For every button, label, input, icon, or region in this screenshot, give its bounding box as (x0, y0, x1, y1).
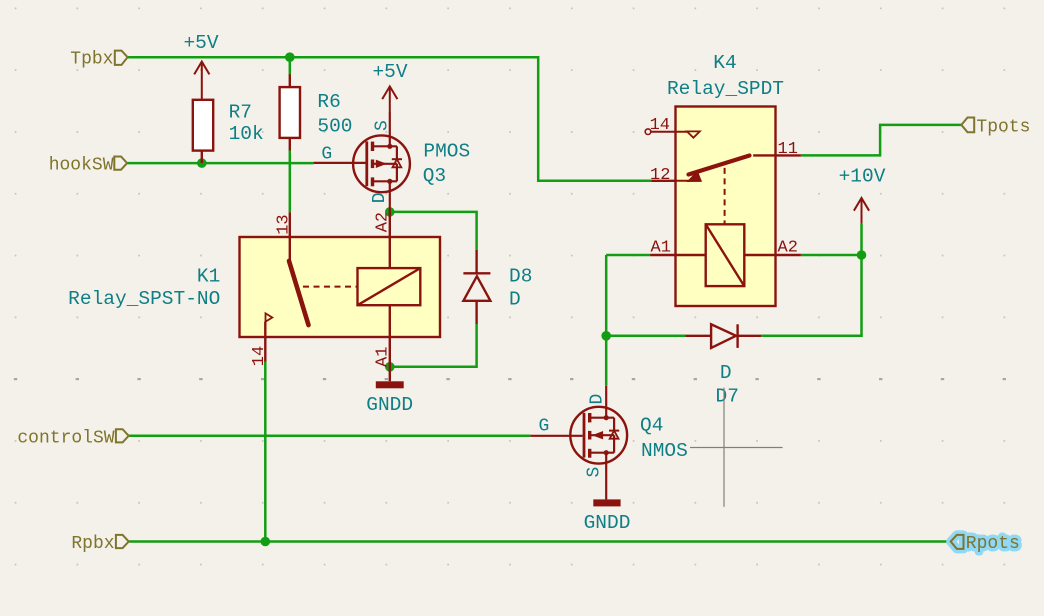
svg-text:Q3: Q3 (423, 165, 446, 187)
wire R6 top link (289, 57, 292, 75)
svg-text:D: D (720, 362, 732, 384)
wire R6 bottom to K1 pin13 (289, 150, 292, 212)
svg-text:A1: A1 (374, 347, 393, 367)
wire node down to Q4 drain (605, 255, 608, 386)
relay K4 Relay_SPDT (645, 107, 801, 307)
editor crosshair cursor (690, 388, 783, 507)
diode D8 (463, 250, 490, 324)
svg-text:A1: A1 (651, 239, 671, 258)
hierarchical port Tpbx (70, 50, 127, 70)
svg-text:G: G (539, 416, 550, 436)
wire node to D7 anode (606, 335, 685, 338)
wire K4 A1 to node (606, 254, 650, 257)
svg-text:hookSW: hookSW (49, 156, 114, 176)
svg-text:14: 14 (650, 116, 670, 135)
ground GNDD at Q4 (584, 499, 631, 534)
wire controlSW to Q4 gate (128, 435, 530, 438)
svg-text:500: 500 (317, 115, 352, 137)
svg-text:Relay_SPST-NO: Relay_SPST-NO (68, 288, 220, 310)
svg-text:+5V: +5V (372, 61, 407, 83)
svg-text:D: D (509, 289, 521, 311)
svg-text:NMOS: NMOS (641, 440, 688, 462)
wire +10V stem to node (860, 223, 863, 255)
svg-text:G: G (321, 145, 332, 165)
svg-text:GNDD: GNDD (366, 394, 413, 416)
transistor Q3 PMOS (314, 112, 410, 212)
svg-text:10k: 10k (229, 123, 264, 145)
svg-text:+10V: +10V (839, 165, 886, 187)
svg-text:Rpots: Rpots (966, 534, 1020, 554)
junction at +10V / K4 A2 / D7 (857, 250, 867, 260)
power +5V at R7 (194, 62, 209, 100)
svg-text:Q4: Q4 (640, 414, 663, 436)
svg-text:12: 12 (650, 166, 670, 185)
power +10V (854, 198, 869, 223)
diode D7 (686, 324, 762, 348)
svg-text:GNDD: GNDD (584, 512, 631, 534)
svg-text:Relay_SPDT: Relay_SPDT (667, 78, 784, 100)
junction at Q3 drain / K1 A2 / D8 (385, 207, 395, 217)
wire D7 cathode to +10V node (761, 255, 861, 336)
wire hookSW to Q3 gate (127, 162, 313, 165)
svg-text:S: S (372, 120, 392, 131)
svg-text:D: D (370, 192, 390, 203)
junction at +5V rail / R6 (285, 52, 295, 62)
hierarchical port Rpbx (71, 534, 128, 554)
hierarchical port Tpots (961, 117, 1030, 137)
svg-text:K4: K4 (713, 52, 736, 74)
svg-text:Tpots: Tpots (976, 117, 1030, 137)
ground GNDD at K1 (366, 381, 413, 416)
svg-text:D8: D8 (509, 266, 532, 288)
svg-text:11: 11 (778, 140, 798, 159)
svg-text:A2: A2 (778, 239, 798, 258)
svg-text:D: D (588, 394, 608, 405)
wire K4 pin11 to Tpots (801, 125, 962, 155)
power +5V at Q3 source (382, 86, 397, 112)
hierarchical port controlSW (17, 428, 128, 448)
junction at R7 / hookSW (197, 158, 207, 168)
wire Q3 drain to D8 anode (390, 212, 477, 250)
svg-text:A2: A2 (374, 212, 393, 232)
transistor Q4 NMOS (530, 386, 627, 500)
svg-text:K1: K1 (197, 266, 220, 288)
hierarchical port hookSW (49, 156, 127, 176)
wire K1 pin14 down to Rpbx net (264, 362, 267, 542)
svg-text:Tpbx: Tpbx (70, 50, 113, 70)
resistor R6 (280, 74, 300, 150)
wire D8 cathode to GNDD node (390, 324, 477, 367)
svg-text:+5V: +5V (183, 32, 218, 54)
junction at K4 A1 / D7 / Q4 drain (601, 331, 611, 341)
wire K4 A2 to +10V node (801, 254, 862, 257)
wire Rpbx to Rpots (128, 540, 951, 543)
svg-text:R6: R6 (317, 91, 340, 113)
hierarchical port Rpots (selected, blue halo) (951, 534, 1020, 554)
svg-text:13: 13 (274, 214, 293, 234)
svg-text:R7: R7 (229, 102, 252, 124)
resistor R7 (193, 100, 213, 163)
svg-text:D7: D7 (716, 385, 739, 407)
wire Tpbx to K4 pin12 (127, 57, 651, 181)
svg-text:14: 14 (250, 346, 269, 366)
junction at K1 A1 / GNDD / D8 (385, 362, 395, 372)
junction at K1 pin14 / Rpbx (261, 537, 271, 547)
relay K1 Relay_SPST-NO (240, 212, 441, 381)
svg-text:S: S (584, 467, 604, 478)
svg-text:controlSW: controlSW (17, 428, 114, 448)
svg-text:PMOS: PMOS (423, 141, 470, 163)
svg-text:Rpbx: Rpbx (71, 534, 114, 554)
